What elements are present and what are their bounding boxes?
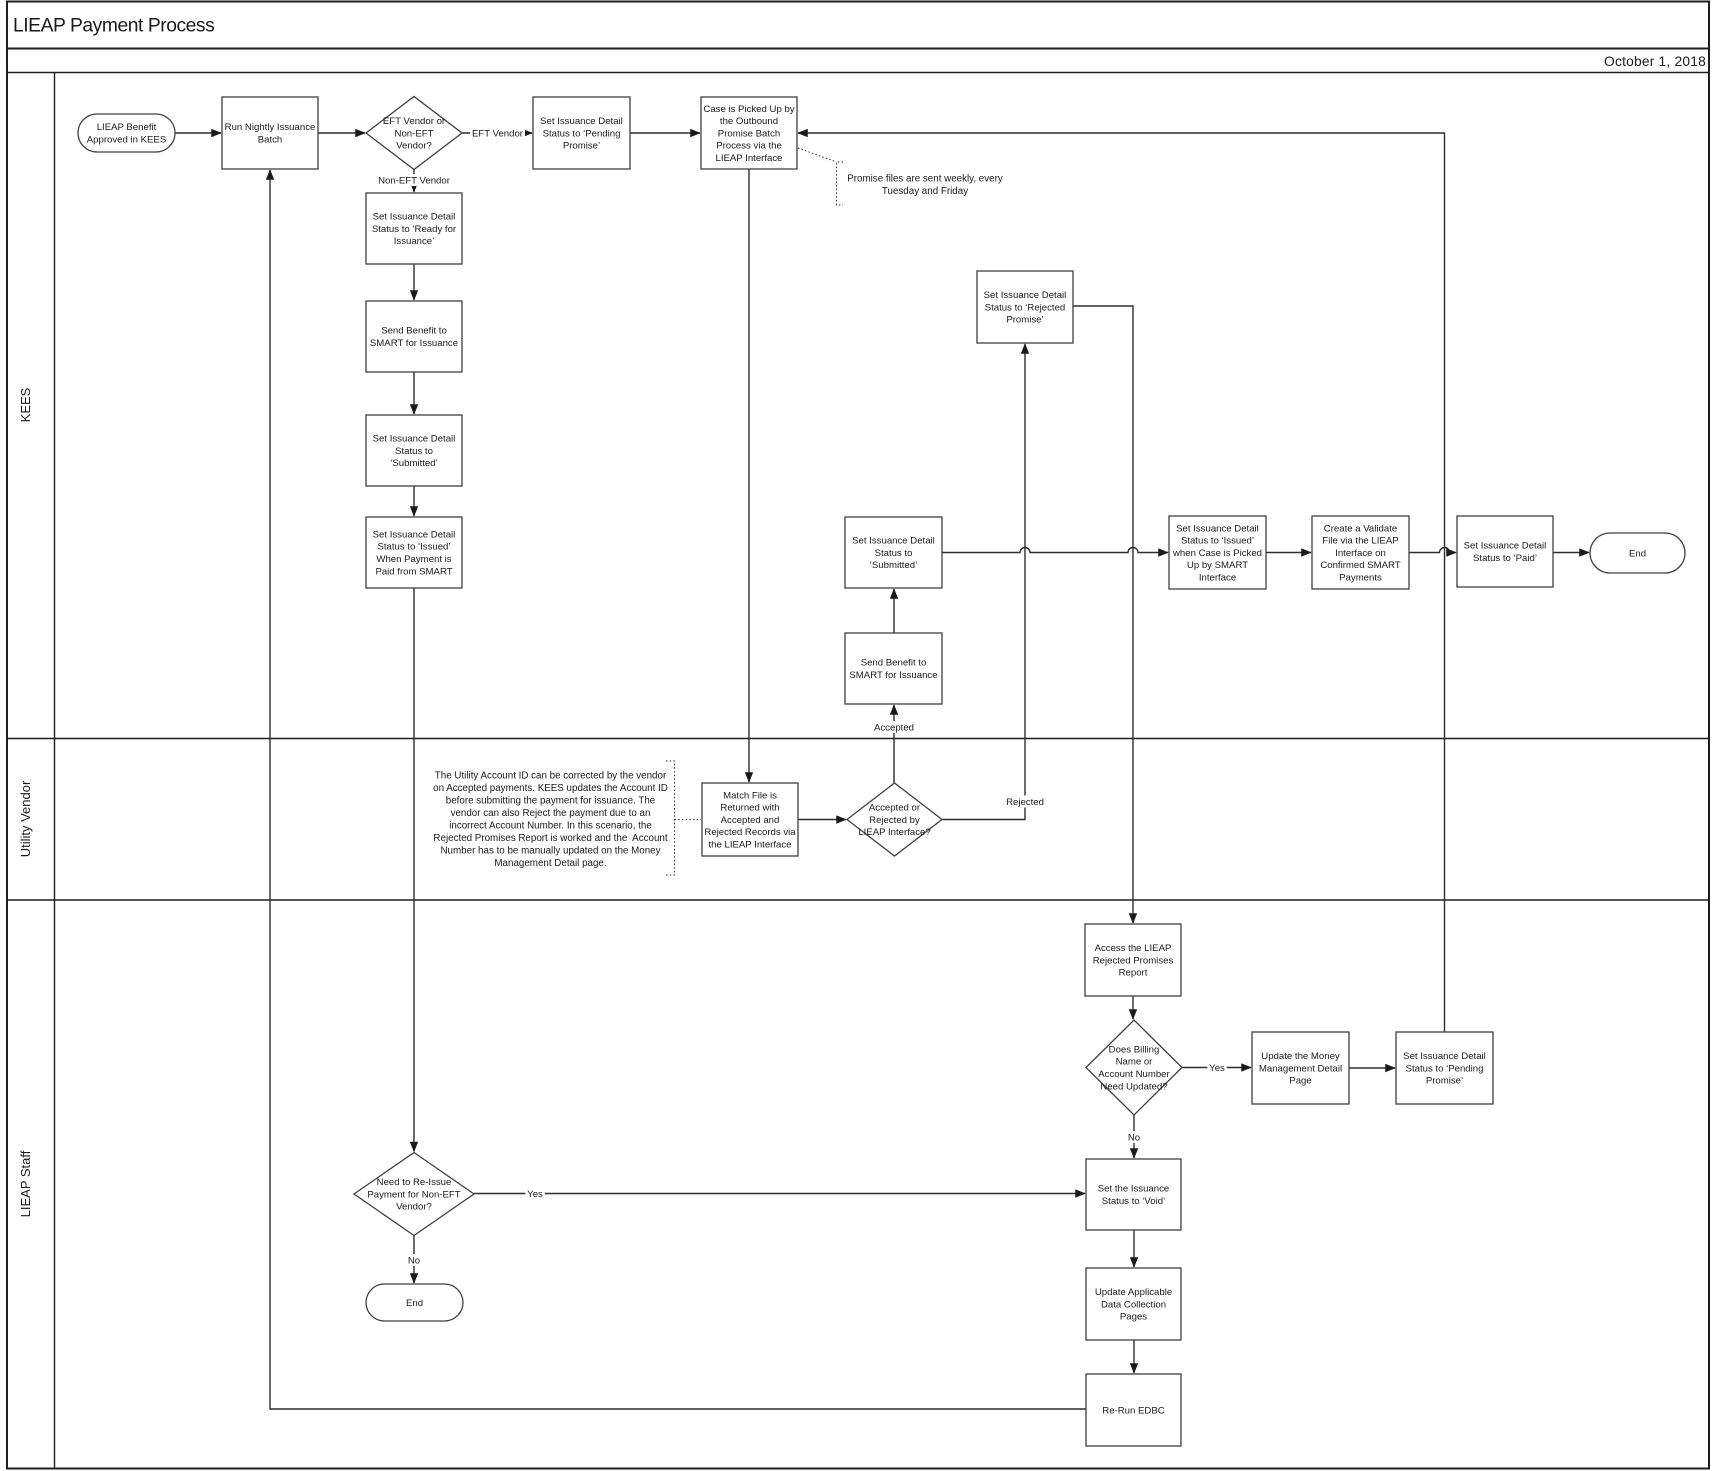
process: Update the Money Management Detail Page [1252,1032,1349,1104]
dotted connector from Case is Picked Up box to Promise files bracket [798,148,837,162]
connector Does Billing decision Yes to Update Money Management [1182,1067,1251,1069]
svg-text:the LIEAP Interface: the LIEAP Interface [708,840,791,851]
connector Void to Update Applicable Data Collection [1133,1230,1135,1267]
svg-text:Non-EFT: Non-EFT [395,128,434,139]
annotation: Utility Account ID note text [433,771,668,870]
connector feedback from Pending Promise (bottom right) up into Case is Picked Up [798,133,1445,1032]
svg-text:The Utility Account ID can be: The Utility Account ID can be corrected … [435,771,667,782]
process: Match File is Returned with Accepted and Rejected Records [702,783,798,856]
svg-text:Approved in KEES: Approved in KEES [87,135,166,146]
svg-text:Name or: Name or [1116,1057,1154,1068]
svg-text:Utility Vendor: Utility Vendor [18,780,33,857]
connector Pending Promise to Case is Picked Up [630,132,700,134]
svg-text:incorrect Account Number. In t: incorrect Account Number. In this scenar… [449,821,652,832]
svg-text:Set Issuance Detail: Set Issuance Detail [852,536,935,547]
svg-text:Set Issuance Detail: Set Issuance Detail [373,434,456,445]
branch label No (Need to Re-Issue decision) [407,1254,421,1266]
svg-text:Set the Issuance: Set the Issuance [1098,1184,1169,1195]
process: Send Benefit to SMART for Issuance (2) [845,633,942,704]
svg-text:Does Billing: Does Billing [1109,1044,1160,1055]
svg-text:Batch: Batch [258,135,283,146]
svg-text:Rejected Records via: Rejected Records via [704,827,796,838]
svg-text:Match File is: Match File is [723,790,777,801]
svg-text:Promise Batch: Promise Batch [718,128,780,139]
svg-text:Yes: Yes [1209,1063,1225,1074]
svg-text:Set Issuance Detail: Set Issuance Detail [1176,523,1259,534]
svg-text:Status to: Status to [395,446,433,457]
process: Set Issuance Detail Status to Issued when Case is Picked Up by SMART Interface [1169,516,1266,589]
process: Set Issuance Detail Status to Rejected Promise [977,271,1073,343]
svg-text:vendor can also Reject the pay: vendor can also Reject the payment due t… [451,808,651,819]
svg-text:Management Detail page.: Management Detail page. [494,858,606,869]
svg-text:October 1, 2018: October 1, 2018 [1604,54,1706,69]
svg-text:EFT Vendor: EFT Vendor [472,128,524,139]
svg-text:Case is Picked Up by: Case is Picked Up by [703,104,794,115]
svg-text:Set Issuance Detail: Set Issuance Detail [373,212,456,223]
svg-text:before submitting the payment: before submitting the payment for issuan… [446,796,656,807]
connector Need to Re-Issue Yes to Void box [474,1193,1085,1195]
svg-text:Tuesday and Friday: Tuesday and Friday [882,186,968,197]
svg-text:Status to ‘Issued’: Status to ‘Issued’ [377,542,450,553]
svg-text:KEES: KEES [18,387,33,422]
process: Set Issuance Detail Status to Paid [1457,516,1553,587]
svg-text:Vendor?: Vendor? [396,141,432,152]
branch label EFT Vendor [470,127,525,139]
svg-text:Status to ‘Issued’: Status to ‘Issued’ [1181,536,1254,547]
branch label Accepted [872,721,917,733]
svg-text:Send Benefit to: Send Benefit to [861,658,927,669]
process: Re-Run EDBC [1086,1374,1181,1446]
svg-text:Accepted or: Accepted or [869,803,921,814]
svg-text:Interface on: Interface on [1335,548,1386,559]
connector Rejected branch up to Rejected Promise box [942,344,1025,820]
terminator: End (bottom left) [366,1284,463,1321]
svg-text:Set Issuance Detail: Set Issuance Detail [1403,1051,1486,1062]
decision: Accepted or Rejected by LIEAP Interface? [847,783,942,856]
connector Rejected Promise down to Access Rejected Promises Report [1073,306,1133,923]
dotted connector from note bracket to Match File box [675,819,702,821]
svg-text:Up by SMART: Up by SMART [1187,560,1248,571]
svg-text:Rejected: Rejected [1006,797,1044,808]
terminator: End (top right) [1590,533,1685,573]
branch label No (Does Billing decision) [1127,1131,1141,1143]
svg-text:Update Applicable: Update Applicable [1095,1287,1172,1298]
svg-text:Status to ‘Rejected: Status to ‘Rejected [985,302,1066,313]
svg-text:when Case is Picked: when Case is Picked [1172,548,1262,559]
svg-text:Payment for Non-EFT: Payment for Non-EFT [367,1189,460,1200]
svg-text:Accepted and: Accepted and [721,815,780,826]
process: Set Issuance Detail Status to Ready for Issuance [366,193,462,264]
process: Set Issuance Detail Status to Pending Promise (2) [1396,1032,1493,1104]
branch label Yes (Need to Re-Issue decision) [525,1188,544,1200]
svg-text:Status to: Status to [875,548,913,559]
lane divider Utility Vendor / LIEAP Staff [7,899,1709,901]
svg-text:Status to ‘Pending: Status to ‘Pending [1406,1063,1484,1074]
svg-text:LIEAP Payment Process: LIEAP Payment Process [13,16,214,37]
svg-text:Issuance’: Issuance’ [394,236,435,247]
lane divider KEES / Utility Vendor [7,738,1709,740]
process: Set Issuance Detail Status to Submitted [366,415,462,486]
annotation bracket (dotted) for Utility Account ID note [666,761,675,875]
connector Update Applicable Data Collection to Re-Run EDBC [1133,1340,1135,1373]
svg-text:LIEAP Interface: LIEAP Interface [715,153,782,164]
svg-text:Number has to be manually upda: Number has to be manually updated on the… [440,846,660,857]
svg-text:‘Submitted’: ‘Submitted’ [870,560,917,571]
connector EFT decision to Pending Promise (EFT Vendor branch) [462,132,532,134]
branch label Non-EFT Vendor [376,174,451,186]
svg-text:Run Nightly Issuance: Run Nightly Issuance [225,122,316,133]
connector start ellipse to Run Nightly Issuance Batch [175,132,221,134]
connector EFT decision down to Ready for Issuance (Non-EFT branch) [413,170,415,193]
connector Run Nightly Issuance Batch to EFT decision [318,132,365,134]
connector Match File to Accepted or Rejected decision [798,819,846,821]
process: Send Benefit to SMART for Issuance [366,301,462,372]
date band: October 1, 2018 [7,72,1709,74]
svg-text:Account Number: Account Number [1098,1069,1170,1080]
svg-text:File via the LIEAP: File via the LIEAP [1322,536,1398,547]
annotation: Promise files note text [847,174,1003,198]
svg-text:Non-EFT Vendor: Non-EFT Vendor [378,175,451,186]
svg-text:Rejected Promises: Rejected Promises [1093,955,1174,966]
swim-lane label column divider [54,73,56,1469]
svg-text:Page: Page [1289,1076,1311,1087]
svg-text:Set Issuance Detail: Set Issuance Detail [373,529,456,540]
svg-text:Status to ‘Paid’: Status to ‘Paid’ [1473,553,1537,564]
connector Re-Run EDBC feedback loop to Run Nightly Issuance Batch [270,170,1086,1409]
svg-text:Promise files are sent weekly,: Promise files are sent weekly, every [847,174,1003,185]
svg-text:SMART for Issuance: SMART for Issuance [849,670,937,681]
process: Set Issuance Detail Status to Pending Promise [533,97,630,169]
svg-text:Accepted: Accepted [874,722,914,733]
svg-text:LIEAP Staff: LIEAP Staff [18,1150,33,1217]
process: Set Issuance Detail Status to Issued When Payment is Paid from SMART [366,517,462,588]
connector Send Benefit to SMART (2) up to Submitted (2) [893,589,895,633]
connector Access Report to Does Billing decision [1132,996,1134,1019]
connector Submitted to Issued When Payment is Paid [413,486,415,516]
branch label Yes (Does Billing decision) [1207,1062,1226,1074]
svg-text:Rejected Promises Report is wo: Rejected Promises Report is worked and t… [433,833,667,844]
svg-text:Promise’: Promise’ [1426,1076,1463,1087]
connector Paid to End [1553,552,1589,554]
svg-text:Report: Report [1119,968,1148,979]
connector Ready for Issuance to Send Benefit to SMART [413,264,415,300]
svg-text:Promise’: Promise’ [563,141,600,152]
connector Issued when Case is Picked Up to Create a Validate File [1266,552,1311,554]
process: Update Applicable Data Collection Pages [1086,1268,1181,1340]
svg-text:Update the Money: Update the Money [1261,1051,1340,1062]
svg-text:Set Issuance Detail: Set Issuance Detail [984,290,1067,301]
decision: Does Billing Name or Account Number Need Updated? [1086,1020,1182,1115]
connector Need to Re-Issue No down to End [413,1236,415,1284]
connector Does Billing decision No down to Void [1133,1115,1135,1158]
connector Accepted branch up to Send Benefit to SMART (2) [893,705,895,783]
svg-text:Interface: Interface [1199,573,1236,584]
process: Set Issuance Detail Status to Submitted (2) [845,517,942,588]
title band: LIEAP Payment Process [7,48,1709,50]
svg-text:‘Submitted’: ‘Submitted’ [390,458,437,469]
svg-text:End: End [1629,548,1646,559]
svg-text:LIEAP Interface?: LIEAP Interface? [858,827,930,838]
svg-text:the Outbound: the Outbound [720,116,778,127]
svg-text:No: No [408,1255,420,1266]
svg-text:No: No [1128,1132,1140,1143]
svg-text:Paid from SMART: Paid from SMART [375,566,452,577]
annotation bracket (dotted) for Promise files note [837,162,844,205]
start terminator: LIEAP Benefit Approved in KEES [78,114,175,152]
process: Access the LIEAP Rejected Promises Report [1085,924,1181,996]
process: Case is Picked Up by the Outbound Promise Batch Process [701,97,797,169]
svg-text:Confirmed SMART: Confirmed SMART [1320,560,1400,571]
connector Case is Picked Up down to Match File box [748,170,750,783]
connector Create a Validate File to Paid (with line hop) [1409,548,1456,553]
svg-text:Need to Re-Issue: Need to Re-Issue [377,1177,452,1188]
decision: Need to Re-Issue Payment for Non-EFT Vendor? [354,1153,474,1236]
svg-text:EFT Vendor or: EFT Vendor or [383,116,446,127]
decision: EFT Vendor or Non-EFT Vendor? [366,97,462,170]
svg-text:Rejected by: Rejected by [869,815,920,826]
svg-text:SMART for Issuance: SMART for Issuance [370,338,458,349]
svg-text:Process via the: Process via the [716,141,782,152]
connector Submitted (2) to Issued when Case is Picked Up (with line hops) [942,548,1168,553]
svg-text:Payments: Payments [1339,573,1382,584]
branch label Rejected [1003,796,1048,808]
svg-text:on Accepted payments. KEES upd: on Accepted payments. KEES updates the A… [433,783,668,794]
svg-text:Data Collection: Data Collection [1101,1299,1166,1310]
svg-text:Returned with: Returned with [720,803,779,814]
svg-text:End: End [406,1298,423,1309]
svg-text:Send Benefit to: Send Benefit to [381,326,447,337]
svg-text:Status to ‘Ready for: Status to ‘Ready for [372,224,457,235]
svg-text:Set Issuance Detail: Set Issuance Detail [1464,541,1547,552]
connector Update Money Management to Pending Promise (2) [1349,1067,1395,1069]
svg-text:Pages: Pages [1120,1312,1147,1323]
svg-text:Re-Run EDBC: Re-Run EDBC [1102,1405,1164,1416]
svg-text:Status to ‘Pending: Status to ‘Pending [543,128,621,139]
svg-text:Create a Validate: Create a Validate [1324,523,1397,534]
connector Send Benefit to SMART to Submitted [413,372,415,414]
svg-text:Need Updated?: Need Updated? [1100,1081,1167,1092]
svg-text:Management Detail: Management Detail [1259,1063,1342,1074]
svg-text:When Payment is: When Payment is [376,554,451,565]
svg-text:Promise’: Promise’ [1006,315,1043,326]
connector Issued When Payment is Paid down to Need to Re-Issue decision [413,588,415,1152]
svg-text:Status to ‘Void’: Status to ‘Void’ [1102,1196,1165,1207]
svg-text:Yes: Yes [527,1189,543,1200]
svg-text:LIEAP Benefit: LIEAP Benefit [97,122,157,133]
svg-text:Access the LIEAP: Access the LIEAP [1095,943,1172,954]
process: Set the Issuance Status to Void [1086,1159,1181,1230]
process: Run Nightly Issuance Batch [222,97,318,169]
process: Create a Validate File via the LIEAP Interface [1312,516,1409,589]
svg-text:Set Issuance Detail: Set Issuance Detail [540,116,623,127]
svg-text:Vendor?: Vendor? [396,1202,432,1213]
